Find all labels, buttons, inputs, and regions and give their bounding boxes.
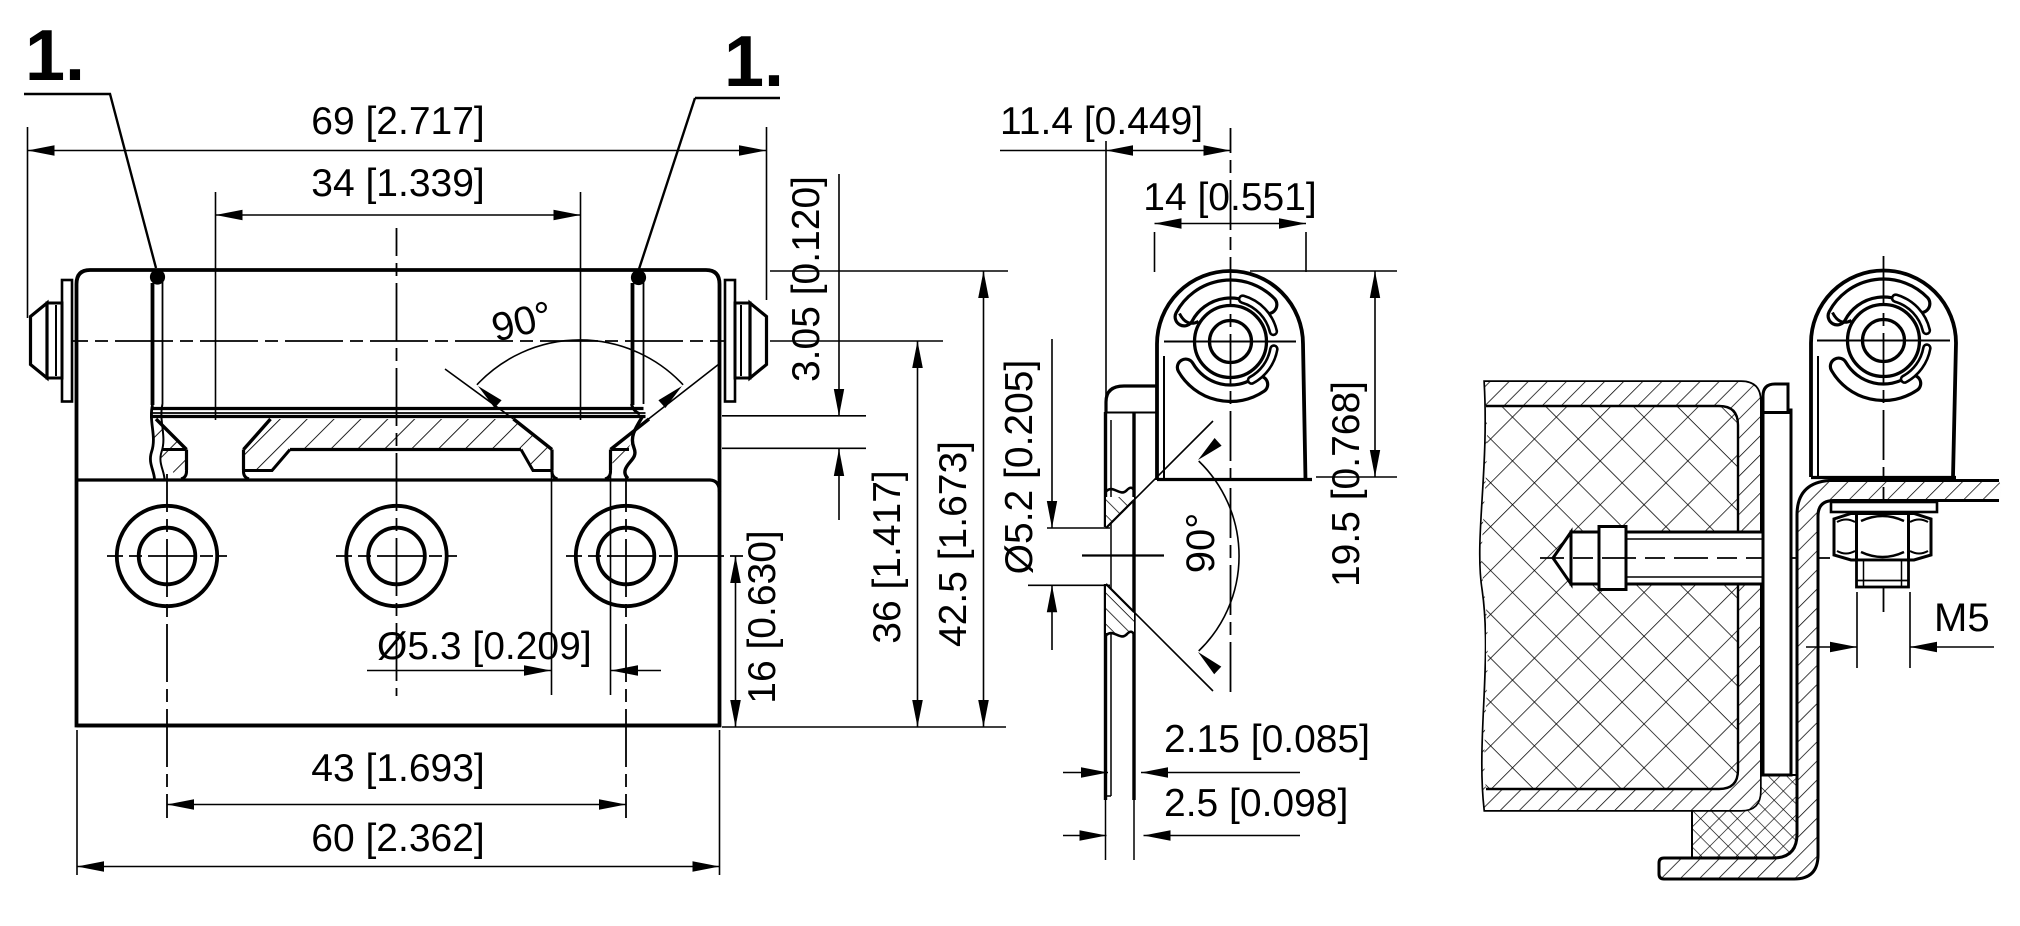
break squiggle bottom <box>1106 632 1135 637</box>
gasket block <box>1692 775 1802 858</box>
knuckle pin circles <box>1195 306 1267 378</box>
svg-text:60 [2.362]: 60 [2.362] <box>311 817 484 860</box>
plate bottom extension <box>722 726 1006 728</box>
svg-text:90°: 90° <box>1179 513 1223 574</box>
countersink hole right (leaf) <box>514 419 553 450</box>
door inner skin line <box>1486 406 1738 789</box>
leaf mounting slot right <box>631 283 635 405</box>
spring clip hook <box>1180 314 1199 324</box>
spring clip hook right <box>1833 313 1852 323</box>
spring clip lower <box>1177 359 1267 401</box>
side view leaf plate <box>1104 412 1107 527</box>
leaf fold curl right (slot bottom) <box>632 404 641 414</box>
leaf mounting slot left <box>151 283 155 405</box>
svg-text:34 [1.339]: 34 [1.339] <box>311 162 484 205</box>
slot pin dot right (detail 1.) <box>631 270 646 285</box>
vertical centerline hole2 / hinge axis <box>396 228 398 696</box>
svg-text:Ø5.3 [0.209]: Ø5.3 [0.209] <box>377 625 592 668</box>
knuckle dome (right view) <box>1811 271 1956 478</box>
knuckle dome (side view) <box>1157 271 1306 480</box>
svg-text:42.5 [1.673]: 42.5 [1.673] <box>932 441 975 647</box>
svg-text:Ø5.2 [0.205]: Ø5.2 [0.205] <box>998 360 1041 575</box>
svg-text:36 [1.417]: 36 [1.417] <box>866 470 909 643</box>
svg-text:16 [0.630]: 16 [0.630] <box>741 530 784 703</box>
knuckle pin circles right <box>1848 305 1920 377</box>
knuckle crosshair right <box>1817 340 1950 342</box>
side view leaf top tab <box>1106 386 1157 413</box>
door panel outer skin <box>1481 382 1760 810</box>
spring clip lower right <box>1830 358 1920 400</box>
main horizontal centerline <box>30 340 770 342</box>
retainer crescent lower right <box>1901 345 1930 383</box>
svg-text:2.5 [0.098]: 2.5 [0.098] <box>1164 782 1348 825</box>
leaf section bottom edge <box>290 448 521 451</box>
washer <box>1831 502 1937 512</box>
barrel bottom edges <box>153 407 644 410</box>
plate section hatch lower <box>1106 583 1134 633</box>
spring clip upper <box>1175 280 1277 326</box>
leaf top tab right view <box>1763 384 1788 413</box>
leaf section hatch <box>244 419 553 450</box>
hinge body outline (front view) <box>77 270 720 726</box>
hole3 centerline <box>625 474 627 818</box>
frame bracket <box>1659 481 2001 880</box>
slot pin dot left (detail 1.) <box>150 269 165 284</box>
svg-text:69 [2.717]: 69 [2.717] <box>311 100 484 143</box>
retainer crescent upper <box>1239 296 1277 335</box>
hinge pin left <box>62 280 72 402</box>
spring clip upper right <box>1828 279 1930 325</box>
countersink hole left (leaf) <box>156 419 187 450</box>
retainer crescent upper right <box>1892 295 1930 334</box>
svg-text:1.: 1. <box>25 16 85 96</box>
door sheet hatch band <box>1481 382 1760 810</box>
svg-text:43 [1.693]: 43 [1.693] <box>311 747 484 790</box>
hex nut M5 <box>1834 514 1931 561</box>
svg-text:19.5 [0.768]: 19.5 [0.768] <box>1325 381 1368 587</box>
svg-text:11.4 [0.449]: 11.4 [0.449] <box>1000 100 1203 143</box>
mounting hole 1 <box>117 506 217 606</box>
plate bottom edge <box>77 724 720 728</box>
retainer crescent lower <box>1248 346 1277 384</box>
hole1 centerline <box>166 474 168 818</box>
stud end below nut <box>1857 560 1909 587</box>
hole centerline side view <box>1082 554 1164 556</box>
weld stud M5 <box>1571 532 1763 584</box>
stud centerline <box>1540 557 1830 559</box>
plate section hatch upper <box>1106 497 1134 529</box>
knuckle crosshair <box>1164 341 1296 343</box>
break squiggle top <box>1106 488 1135 493</box>
svg-text:M5: M5 <box>1934 596 1990 640</box>
countersink flanks in section <box>1106 500 1134 528</box>
door core cross-hatch <box>1482 406 1738 789</box>
knuckle vertical centerline right <box>1883 256 1885 612</box>
leaf fold curl left (slot bottom) <box>150 405 154 479</box>
base plate top edge <box>77 480 720 492</box>
hinge pin right <box>725 280 735 402</box>
svg-text:3.05 [0.120]: 3.05 [0.120] <box>785 176 828 382</box>
mounting hole 3 <box>576 506 676 606</box>
svg-text:14 [0.551]: 14 [0.551] <box>1143 176 1316 219</box>
hinge leaf (right view) <box>1763 410 1791 775</box>
svg-text:2.15 [0.085]: 2.15 [0.085] <box>1164 718 1370 761</box>
mounting hole 2 <box>346 506 446 606</box>
knuckle vertical centerline <box>1230 128 1232 695</box>
svg-text:1.: 1. <box>724 22 784 102</box>
